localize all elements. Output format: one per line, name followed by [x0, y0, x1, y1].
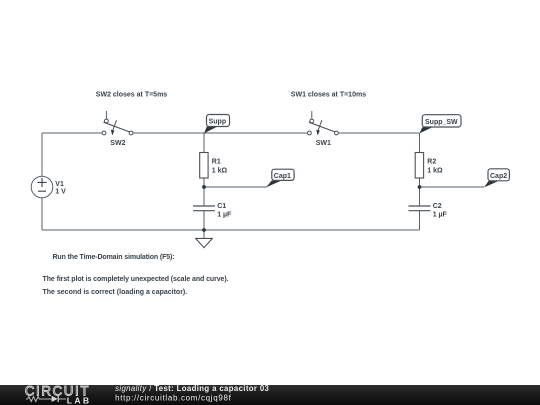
wire bottom rail: [42, 229, 420, 231]
capacitor C1: [193, 206, 215, 211]
value 1 kΩ: [212, 168, 228, 175]
wire node Cap1 lead: [204, 186, 267, 188]
footer title line: [115, 384, 269, 393]
svg-text:Cap1: Cap1: [274, 173, 291, 180]
node flag Supp: [204, 115, 230, 134]
wire C1 bottom plate to bottom rail: [203, 211, 205, 230]
junction ground on bottom rail: [202, 228, 206, 232]
value 1 µF: [433, 211, 448, 218]
wire top rail: SW2 right terminal to SW1 left terminal: [133, 132, 308, 134]
svg-text:R2: R2: [427, 159, 436, 166]
annotation SW2 closes at T=5ms: [96, 92, 168, 99]
switch SW2: [102, 111, 133, 136]
voltage source V1: [31, 176, 53, 198]
svg-text:1 V: 1 V: [55, 189, 66, 196]
wire R1 bottom lead to C1 top plate: [203, 178, 205, 206]
node flag Cap2: [484, 169, 509, 188]
svg-text:The first plot is completely u: The first plot is completely unexpected …: [43, 276, 229, 283]
svg-text:The second is correct (loading: The second is correct (loading a capacit…: [43, 289, 188, 296]
wire R2 top lead: [419, 133, 421, 153]
node flag Cap1: [266, 169, 294, 187]
label R2: [427, 159, 436, 166]
annotation The first plot is completely unexpected (scale and curve).: [43, 276, 229, 283]
annotation The second is correct (loading a capacitor).: [43, 289, 188, 296]
footer url line: [115, 394, 231, 403]
label R1: [212, 159, 221, 166]
junction R1/C1/Cap1: [202, 185, 206, 189]
wire node Cap2 lead: [420, 186, 485, 188]
resistor R1: [200, 153, 208, 179]
node flag Supp_SW: [420, 115, 462, 134]
svg-text:Supp: Supp: [209, 119, 227, 126]
label SW2: [110, 140, 125, 147]
svg-text:Run the Time-Domain simulation: Run the Time-Domain simulation (F5):: [53, 254, 175, 261]
wire top rail: SW1 right terminal to Supp_SW corner: [338, 132, 419, 134]
wire R2 bottom lead to C2 top plate: [419, 178, 421, 206]
resistor R2: [415, 153, 423, 179]
value 1 V: [55, 189, 66, 196]
label SW1: [316, 140, 331, 147]
svg-text:SW1: SW1: [316, 140, 331, 147]
svg-text:C2: C2: [433, 203, 442, 210]
svg-text:Cap2: Cap2: [490, 173, 507, 180]
label C2: [433, 203, 442, 210]
value 1 kΩ: [427, 168, 443, 175]
svg-text:SW1 closes at T=10ms: SW1 closes at T=10ms: [291, 92, 366, 99]
wire V1 top lead: [41, 133, 43, 176]
ground: [196, 232, 213, 248]
svg-text:V1: V1: [55, 181, 64, 188]
value 1 µF: [217, 211, 232, 218]
wire C2 bottom plate to bottom rail: [419, 211, 421, 230]
label V1: [55, 181, 64, 188]
logo resistor zigzag and diode: [26, 396, 66, 402]
footer bar: [0, 385, 540, 405]
capacitor C2: [409, 206, 431, 211]
label C1: [217, 203, 226, 210]
svg-text:SW2: SW2: [110, 140, 125, 147]
svg-text:LAB: LAB: [67, 395, 89, 405]
svg-text:1 kΩ: 1 kΩ: [212, 168, 228, 175]
switch SW1: [308, 111, 339, 136]
svg-text:signality / Test: Loading a ca: signality / Test: Loading a capacitor 03: [115, 384, 269, 393]
svg-text:Supp_SW: Supp_SW: [425, 119, 458, 126]
annotation Run the Time-Domain simulation (F5):: [53, 254, 175, 261]
wire V1 bottom lead: [41, 198, 43, 230]
wire top rail: V1 corner to SW2 left terminal: [42, 132, 102, 134]
logo CIRCUIT text: [25, 384, 89, 399]
svg-text:R1: R1: [212, 159, 221, 166]
annotation SW1 closes at T=10ms: [291, 92, 366, 99]
logo LAB text: [67, 395, 89, 405]
svg-text:http://circuitlab.com/cqjq98f: http://circuitlab.com/cqjq98f: [115, 394, 231, 403]
svg-text:1 µF: 1 µF: [433, 211, 448, 218]
svg-text:SW2 closes at T=5ms: SW2 closes at T=5ms: [96, 92, 168, 99]
junction R2/C2/Cap2: [418, 185, 422, 189]
wire R1 top lead: [203, 133, 205, 153]
svg-text:C1: C1: [217, 203, 226, 210]
svg-text:1 kΩ: 1 kΩ: [427, 168, 443, 175]
svg-text:1 µF: 1 µF: [217, 211, 232, 218]
